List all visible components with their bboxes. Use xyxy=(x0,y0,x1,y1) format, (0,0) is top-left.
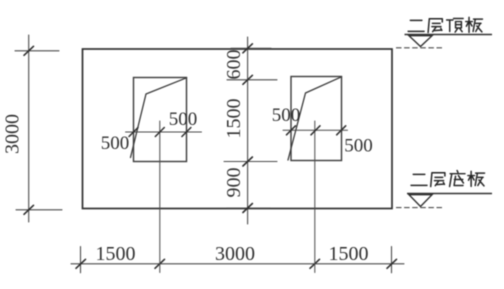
svg-text:3000: 3000 xyxy=(2,114,24,154)
level symbol top: underline xyxy=(405,34,493,36)
char 板 xyxy=(468,171,485,186)
bottom horizontal dimension line xyxy=(71,247,404,273)
svg-text:1500: 1500 xyxy=(96,243,136,265)
level symbol bottom: dashed level line xyxy=(396,207,444,209)
left opening crack diagonal xyxy=(131,78,187,158)
level symbol top: dashed level line xyxy=(396,47,444,49)
middle vertical dimension line 600/1500/900 xyxy=(224,37,277,224)
label 二层顶板 (top slab of 2nd floor) as stroke glyphs xyxy=(408,17,482,32)
char 底 xyxy=(450,171,465,187)
wall outline xyxy=(83,49,393,209)
svg-text:500: 500 xyxy=(344,136,373,157)
ticks bottom dim xyxy=(76,259,397,268)
svg-text:500: 500 xyxy=(169,109,198,130)
ticks middle dim xyxy=(243,44,253,213)
tick top left dim xyxy=(24,46,34,55)
svg-text:1500: 1500 xyxy=(329,243,369,265)
label 二层底板 (bottom slab of 2nd floor) as stroke glyphs xyxy=(411,171,485,187)
char 顶 xyxy=(447,18,464,32)
char 层 xyxy=(428,19,442,33)
svg-text:900: 900 xyxy=(223,168,245,198)
right opening centre line xyxy=(314,121,316,273)
right opening xyxy=(291,77,342,161)
level symbol top: triangle xyxy=(409,36,432,47)
char 二 xyxy=(411,174,427,185)
level symbol bottom: underline xyxy=(407,193,492,195)
char 板 xyxy=(466,17,483,32)
char 层 xyxy=(431,173,445,187)
svg-text:1500: 1500 xyxy=(223,99,245,139)
svg-text:500: 500 xyxy=(272,105,301,126)
left opening inner dimension line xyxy=(126,131,202,133)
right opening crack diagonal xyxy=(288,77,342,160)
level symbol bottom: triangle xyxy=(409,195,432,207)
svg-text:600: 600 xyxy=(223,50,245,80)
left opening centre line xyxy=(159,121,161,273)
left vertical dimension line 3000 xyxy=(15,35,62,222)
tick bottom left dim xyxy=(24,205,34,214)
right opening inner dimension line xyxy=(283,129,348,131)
svg-text:500: 500 xyxy=(101,133,130,154)
left opening xyxy=(134,78,187,162)
char 二 xyxy=(408,20,424,31)
svg-text:3000: 3000 xyxy=(215,243,255,265)
